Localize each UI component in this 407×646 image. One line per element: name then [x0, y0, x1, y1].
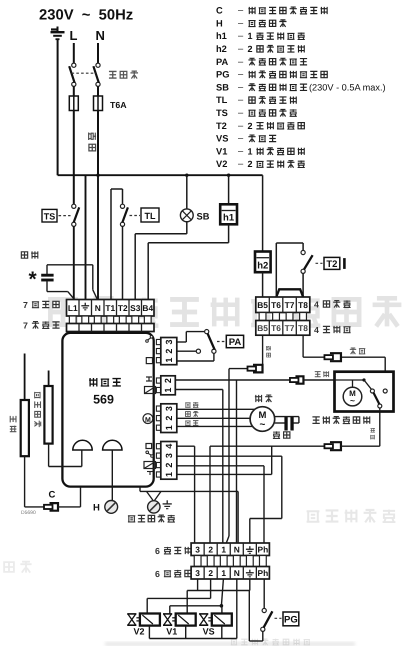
wire col1 pin3 to PA right contact — [177, 360, 214, 362]
main switch N pole — [96, 63, 100, 67]
label capacitor — [21, 252, 27, 258]
wire earth down — [57, 40, 59, 175]
wire servo return drop to col2 of 6-pin — [209, 446, 211, 543]
wire N drop to terminal — [97, 175, 99, 299]
connector on B5 line — [253, 365, 263, 373]
svg-text:2: 2 — [208, 544, 213, 554]
hour counter h1 — [220, 204, 237, 224]
svg-text:–: – — [238, 108, 244, 118]
TL dashed link — [130, 215, 141, 217]
terminal strip col4 1-2-3-4 — [156, 444, 160, 449]
svg-text:T6: T6 — [271, 300, 281, 310]
svg-text:6: 6 — [155, 569, 160, 579]
wire servo return — [210, 445, 324, 447]
svg-text:4: 4 — [314, 325, 319, 335]
label main switch — [109, 71, 117, 78]
wire N col to bottom rail — [236, 579, 238, 639]
terminal strip 4-pin plug — [256, 297, 310, 313]
main switch coupling dashed — [72, 72, 97, 74]
terminal strip col2 1-2 — [156, 378, 160, 383]
wire connector to servo box — [304, 379, 335, 381]
svg-text:2: 2 — [248, 159, 253, 169]
T2 dashed link — [316, 262, 323, 264]
svg-text:3: 3 — [164, 453, 174, 458]
pressure switch PG box — [283, 612, 299, 626]
svg-text:T2: T2 — [118, 303, 128, 313]
burner motor M — [250, 407, 275, 432]
svg-text:*: * — [29, 268, 38, 291]
PA pivot contact — [205, 330, 209, 334]
label I stage — [344, 259, 346, 269]
wire col3 down — [197, 579, 199, 591]
svg-text:V2: V2 — [134, 627, 145, 637]
terminal strip 7-hole socket — [67, 324, 155, 332]
svg-text:h1: h1 — [216, 31, 227, 41]
wire T8 horizontal — [303, 356, 385, 358]
wire probe to C — [24, 456, 26, 507]
air damper servo box — [335, 372, 394, 412]
svg-text:2: 2 — [164, 416, 174, 421]
svg-text:H: H — [93, 503, 100, 514]
svg-text:7: 7 — [23, 321, 28, 331]
svg-text:3: 3 — [164, 340, 174, 345]
label probe vertical — [10, 416, 16, 423]
wire h2 top — [262, 175, 264, 251]
svg-text:7: 7 — [23, 300, 28, 310]
wire L top — [73, 43, 75, 63]
wire col2 pin1 to servo — [175, 379, 290, 381]
wire col2 pin1 drop to N — [236, 380, 238, 543]
svg-text:1: 1 — [163, 388, 173, 393]
svg-text:VS: VS — [203, 627, 215, 637]
fuse L — [69, 96, 78, 111]
svg-text:–: – — [238, 44, 244, 54]
wire B5 horizontal — [229, 368, 263, 370]
servo internal wiring — [335, 379, 365, 381]
connector on servo return — [330, 442, 341, 450]
svg-text:2: 2 — [163, 378, 173, 383]
TS switch — [72, 204, 76, 208]
wire h1 top — [228, 175, 230, 204]
wire col2 down — [210, 579, 212, 598]
wire TL left leg (T1) — [110, 189, 112, 300]
svg-text:–: – — [238, 95, 244, 105]
wire col1 pin2 to PA left contact — [177, 350, 197, 352]
svg-text:1: 1 — [221, 568, 226, 578]
wire SB top — [186, 175, 188, 209]
svg-text:SB: SB — [216, 82, 229, 92]
svg-text:D5690: D5690 — [21, 510, 36, 516]
valve V1 — [163, 613, 172, 615]
svg-text:–: – — [238, 69, 244, 79]
wire T8 drop to servo contact — [384, 357, 386, 391]
label wire color red vertical — [370, 428, 374, 432]
wire ignition to dome1 — [48, 444, 50, 467]
svg-text:S3: S3 — [130, 303, 141, 313]
wire col1 diagonal — [221, 579, 223, 606]
wire gnd col down — [249, 579, 251, 591]
svg-text:1: 1 — [164, 358, 174, 363]
label control box — [89, 378, 97, 386]
svg-text:–: – — [238, 120, 244, 130]
wire h2 to B5 — [262, 272, 264, 297]
wire C to box — [58, 506, 81, 508]
ignition dome 2 — [103, 440, 122, 450]
svg-text:L1: L1 — [68, 303, 78, 313]
wire valve rail B — [147, 597, 210, 599]
label wire color 3 colours — [315, 372, 321, 377]
wire col4 pin1 to col3 of 6-pin — [177, 445, 195, 447]
svg-text:T7: T7 — [285, 300, 295, 310]
wire L to fuse — [73, 86, 75, 96]
thermostat TL box — [141, 208, 159, 222]
svg-text:–: – — [238, 82, 244, 92]
wire PG return — [262, 631, 264, 641]
burner ground symbol — [166, 500, 168, 504]
svg-text:h2: h2 — [257, 260, 268, 271]
svg-text:–: – — [238, 31, 244, 41]
svg-text:1: 1 — [221, 544, 226, 554]
svg-text:4: 4 — [164, 444, 174, 449]
svg-text:T7: T7 — [285, 323, 295, 333]
svg-text:1: 1 — [248, 146, 253, 156]
svg-text:B5: B5 — [257, 323, 268, 333]
svg-text:C: C — [49, 490, 56, 501]
ignition electrode — [48, 371, 50, 387]
svg-text:Ph: Ph — [258, 568, 269, 578]
wire VS return — [221, 626, 223, 639]
wire motor blue — [177, 425, 255, 427]
air pressure switch PA blade — [208, 334, 215, 350]
internal contact col2 — [146, 376, 152, 378]
hour counter h2 — [255, 252, 271, 273]
label neutral line vertical — [89, 132, 96, 140]
label motor — [255, 395, 262, 402]
TS dashed link — [59, 215, 71, 217]
PA left contact — [196, 349, 200, 353]
connector on T8 line — [330, 353, 341, 361]
decor watermark — [50, 299, 75, 324]
wire V1 return — [185, 626, 187, 639]
wire valve bottom rail — [149, 638, 236, 640]
internal contact col4 — [146, 444, 152, 449]
thermostat TS box — [42, 209, 57, 222]
svg-text:T1: T1 — [105, 303, 115, 313]
wire motor white — [177, 417, 250, 419]
svg-text:2: 2 — [248, 121, 253, 131]
svg-text:2: 2 — [164, 463, 174, 468]
PG dashed link — [275, 617, 282, 619]
svg-text:2: 2 — [164, 349, 174, 354]
wire box stub to ground rail — [139, 487, 141, 492]
terminal strip 6-pin plug — [191, 567, 269, 580]
svg-text:N: N — [96, 28, 105, 43]
wire V2 box feed — [146, 598, 148, 614]
wire T8 socket down — [302, 335, 304, 357]
wire T2 loop left leg — [275, 243, 277, 297]
pressure switch PA box — [226, 335, 243, 347]
label wire white — [186, 412, 191, 417]
svg-text:TS: TS — [44, 211, 56, 221]
servo motor circle — [343, 387, 362, 406]
motor capacitor — [275, 422, 285, 424]
servo switch — [370, 389, 374, 393]
PA dashed link — [217, 341, 226, 343]
wire valve rail C — [170, 605, 222, 607]
svg-text:–: – — [238, 133, 244, 143]
svg-text:1: 1 — [248, 31, 253, 41]
wire earth-terminal drop — [85, 175, 87, 299]
wire N down to rail — [97, 111, 99, 176]
label wire color brown — [350, 348, 356, 354]
svg-text:N: N — [234, 568, 240, 578]
wire N top — [97, 43, 99, 63]
control box 569 outline — [62, 333, 153, 487]
label wire color blue vertical — [266, 346, 270, 350]
svg-text:–: – — [238, 18, 244, 28]
wire col2 pin2 drop — [175, 389, 223, 391]
svg-text:SB: SB — [197, 211, 210, 221]
svg-text:PA: PA — [216, 57, 229, 67]
svg-text:–: – — [238, 56, 244, 66]
svg-text:T2: T2 — [216, 121, 227, 131]
svg-text:–: – — [238, 5, 244, 15]
terminal strip col3 1-2-3 — [156, 406, 160, 411]
wire col1 pin1 to PA pivot — [177, 341, 187, 343]
wire supply rail — [58, 174, 263, 176]
PA right contact — [212, 349, 216, 353]
svg-text:B4: B4 — [142, 303, 153, 313]
svg-text:VS: VS — [216, 134, 228, 144]
burner ground screw — [147, 491, 154, 500]
svg-text:N: N — [234, 544, 240, 554]
svg-text:~: ~ — [259, 420, 265, 431]
wire SB bottom — [186, 222, 188, 234]
svg-text:V1: V1 — [166, 627, 177, 637]
label ignition electrode vertical — [35, 392, 40, 399]
svg-text:4: 4 — [314, 300, 319, 310]
svg-text:TS: TS — [216, 108, 228, 118]
4-pin stubs — [259, 313, 266, 321]
svg-text:T2: T2 — [326, 259, 337, 270]
svg-text:h1: h1 — [223, 213, 235, 224]
internal motor symbol col3 — [143, 414, 153, 424]
label air damper servo motor — [312, 417, 319, 423]
svg-text:6: 6 — [155, 546, 160, 556]
svg-text:T8: T8 — [298, 323, 308, 333]
fuse N — [94, 96, 103, 111]
svg-text:L: L — [70, 28, 78, 43]
ground rail to N column — [140, 490, 238, 492]
node valve junction — [220, 604, 224, 608]
wire col4 pin3 to Ph col — [177, 465, 264, 467]
6-pin stubs — [194, 556, 201, 567]
svg-text:C: C — [216, 6, 223, 16]
earth input terminal symbol — [51, 28, 58, 30]
7-pin stubs — [69, 316, 76, 324]
ignition dome 1 — [73, 440, 92, 450]
svg-text:V2: V2 — [216, 159, 227, 169]
wire V2 return — [148, 626, 150, 639]
wire servo return right — [341, 445, 380, 447]
svg-text:569: 569 — [93, 393, 114, 407]
wire valve rail A — [187, 590, 249, 592]
valve VS — [199, 613, 208, 615]
svg-text:1: 1 — [164, 425, 174, 430]
probe electrode — [24, 354, 26, 401]
svg-text:M: M — [145, 417, 151, 424]
svg-text:V1: V1 — [216, 146, 227, 156]
svg-text:(230V - 0.5A max.): (230V - 0.5A max.) — [309, 82, 386, 92]
wire B5 socket down — [262, 335, 264, 368]
terminal strip 6-hole socket — [191, 543, 269, 556]
svg-text:h2: h2 — [216, 44, 227, 54]
svg-text:PA: PA — [229, 337, 242, 348]
thermostat T2 box — [324, 257, 340, 269]
main switch L pole — [72, 63, 76, 67]
jumper bracket T6-T8 — [276, 289, 303, 297]
svg-text:TL: TL — [145, 211, 156, 221]
wire col4 pin2 to ground col — [177, 455, 282, 457]
svg-text:2: 2 — [248, 44, 253, 54]
wire T2 loop right leg — [302, 243, 304, 250]
svg-text:3: 3 — [195, 568, 200, 578]
capacitor C1 — [41, 274, 53, 277]
wire h1 bottom — [228, 224, 230, 243]
wire T2 switch to T8 — [302, 273, 304, 297]
svg-text:–: – — [238, 159, 244, 169]
terminal strip col1 1-2-3 — [156, 339, 160, 344]
label wire black — [185, 403, 190, 407]
valve V2 — [127, 613, 136, 615]
TL switch — [120, 204, 124, 208]
wire TL right leg — [122, 189, 124, 204]
svg-text:230V ~ 50Hz: 230V ~ 50Hz — [39, 8, 133, 24]
connector C — [50, 503, 59, 511]
svg-text:–: – — [238, 146, 244, 156]
wire L down to TS switch — [73, 111, 75, 205]
svg-text:H: H — [216, 18, 223, 28]
servo pivot wire — [379, 408, 381, 412]
wire TL top — [111, 188, 123, 190]
svg-text:Ph: Ph — [258, 544, 269, 554]
wire dome2 to H — [111, 450, 113, 500]
wire T2 loop top — [276, 242, 303, 244]
terminal strip 7-pin plug — [67, 300, 155, 317]
svg-text:T6: T6 — [271, 323, 281, 333]
svg-text:2: 2 — [208, 568, 213, 578]
node N junction — [96, 174, 99, 177]
signal lamp SB — [180, 209, 193, 222]
label burner ground — [128, 516, 135, 522]
wire B5 line down to pin1 — [228, 369, 230, 536]
svg-text:1: 1 — [164, 472, 174, 477]
svg-text:N: N — [95, 303, 101, 313]
svg-text:~: ~ — [350, 396, 355, 406]
svg-text:3: 3 — [164, 406, 174, 411]
wire VS box feed — [221, 606, 223, 614]
wire motor black — [177, 408, 255, 410]
svg-text:T6A: T6A — [110, 100, 127, 110]
wire V1 box feed — [186, 591, 188, 614]
node h1 feed — [227, 174, 230, 177]
pressure switch PG contacts — [262, 608, 266, 612]
internal contact col1 — [146, 340, 149, 343]
label wire blue — [185, 421, 190, 425]
svg-text:T8: T8 — [298, 300, 308, 310]
svg-text:B5: B5 — [257, 300, 268, 310]
label motor capacitor — [273, 431, 280, 438]
wire TS to L1 — [73, 226, 75, 299]
wire V1 hourglass feed — [169, 606, 171, 614]
connector on servo feed — [295, 376, 303, 383]
thermostat T2 switch — [301, 250, 305, 254]
wire N to fuse — [97, 86, 99, 96]
node SB feed — [185, 174, 188, 177]
screw H — [105, 501, 118, 514]
svg-text:3: 3 — [195, 544, 200, 554]
wire col4 pin4 riser — [177, 473, 272, 475]
terminal strip 4-hole socket — [256, 321, 310, 336]
wire Ph to PG — [263, 579, 265, 608]
svg-text:TL: TL — [216, 95, 228, 105]
svg-text:PG: PG — [284, 614, 298, 625]
svg-text:PG: PG — [216, 70, 229, 80]
wire TL switch to T2 — [122, 226, 124, 299]
